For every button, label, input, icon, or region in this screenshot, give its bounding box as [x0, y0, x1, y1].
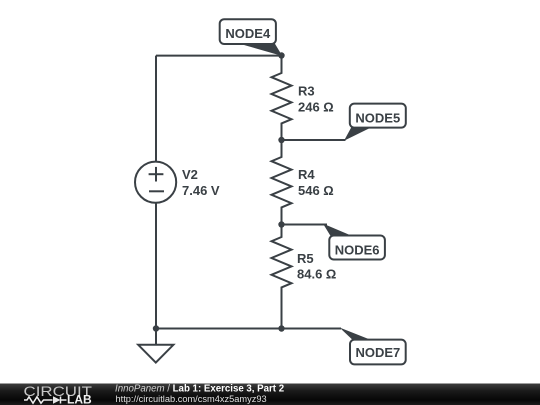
- svg-text:V2: V2: [182, 167, 198, 182]
- svg-text:246 Ω: 246 Ω: [298, 100, 334, 115]
- svg-text:NODE5: NODE5: [355, 110, 400, 125]
- svg-text:R3: R3: [298, 84, 315, 99]
- svg-text:R4: R4: [298, 167, 315, 182]
- svg-text:http://circuitlab.com/csm4xz5a: http://circuitlab.com/csm4xz5amyz93: [116, 394, 267, 404]
- svg-text:84.6 Ω: 84.6 Ω: [297, 267, 336, 282]
- svg-text:InnoPanem / Lab 1: Exercise 3,: InnoPanem / Lab 1: Exercise 3, Part 2: [115, 383, 284, 394]
- svg-text:NODE7: NODE7: [356, 345, 401, 360]
- svg-text:R5: R5: [297, 251, 314, 266]
- svg-text:546 Ω: 546 Ω: [298, 183, 334, 198]
- svg-text:NODE6: NODE6: [335, 243, 380, 258]
- svg-text:NODE4: NODE4: [225, 26, 271, 41]
- svg-text:LAB: LAB: [67, 393, 92, 405]
- svg-text:7.46 V: 7.46 V: [182, 183, 220, 198]
